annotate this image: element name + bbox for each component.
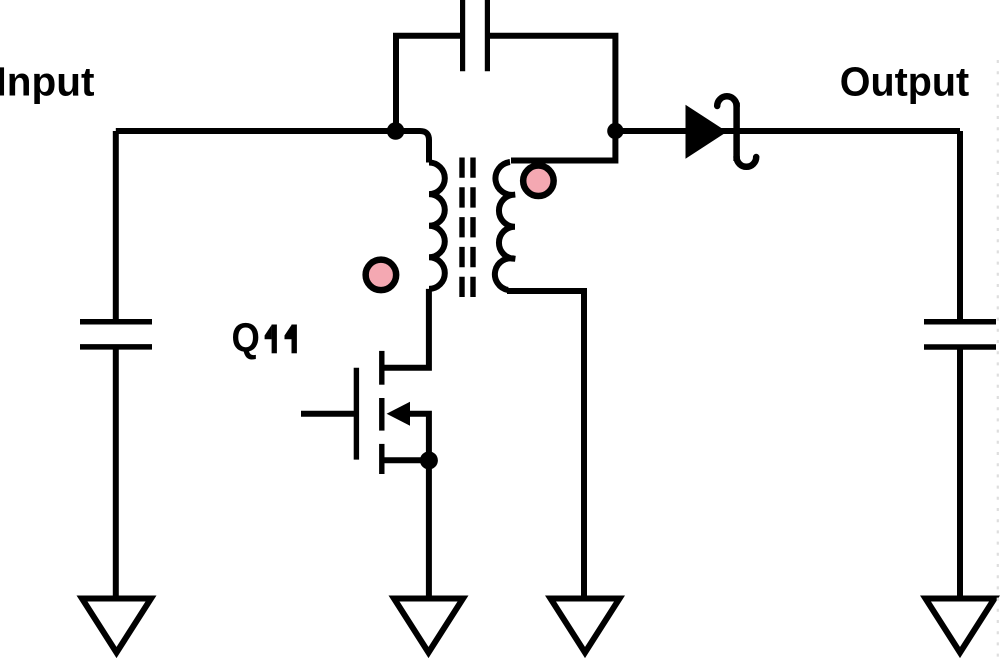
wire top loop right [490,36,616,131]
transistor Q11 body-diode arrow [387,402,410,426]
wire secondary bottom [507,291,584,598]
wire C-out to ground [957,349,963,598]
border artifact dashed line right edge [997,60,999,663]
wire Q11 source lead [382,457,429,463]
node A junction [387,122,405,140]
transistor Q11 channel top segment [379,351,384,385]
transistor Q11 gate plate [354,368,359,460]
phasing dot secondary (pink) [523,166,554,197]
transformer secondary winding [495,162,515,290]
node B junction [607,123,623,139]
svg-text:Q: Q [232,316,260,361]
wire source to ground [426,460,432,598]
wire output right drop [957,131,963,319]
label Q11 [232,316,297,361]
diode D1 schottky top hook [717,96,736,106]
transistor Q11 channel bottom segment [379,444,384,474]
ground GND1 [82,599,151,653]
transformer primary winding [429,163,445,289]
capacitor C-out [924,322,996,347]
capacitor C-top [463,0,488,71]
svg-text:Input: Input [0,59,94,105]
node C junction (source) [420,451,438,469]
capacitor C-in [80,322,152,347]
ground GND3 [551,599,620,653]
wire Q11 drain lead [382,289,429,368]
wire input rail [116,128,396,134]
wire C-in to ground [113,349,119,598]
wire Q11 body connection [408,414,429,461]
wire top loop left [396,36,461,131]
ground GND4 [926,599,995,653]
diode D1 schottky bottom hook [737,157,757,167]
wire output rail [615,128,960,134]
ground GND2 [394,599,463,653]
wire input left drop [113,131,119,319]
transistor Q11 channel middle segment [379,398,384,431]
transformer core (dashed) [462,158,473,298]
diode D1 (Schottky) triangle [686,105,728,159]
transistor Q11 gate lead wire [301,411,356,417]
wire node A to primary [393,131,429,163]
svg-text:Output: Output [840,60,969,105]
phasing dot primary (pink) [366,260,397,291]
diode D1 cathode bar [733,103,740,162]
wire secondary top to node B [511,134,615,161]
